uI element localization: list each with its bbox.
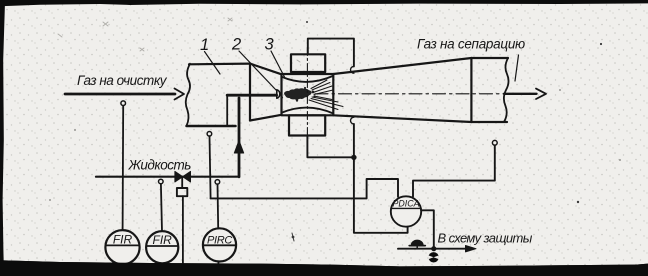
wire: PDICA output to protection line xyxy=(421,210,434,248)
wire: gas outlet arrow line xyxy=(504,93,537,95)
vessel 1: top edge xyxy=(189,62,250,65)
spray plume blob xyxy=(281,87,316,102)
valve on liquid line xyxy=(175,171,191,182)
spray fan lines upper xyxy=(311,80,333,95)
wire: gas inlet arrow line xyxy=(65,93,175,96)
svg-text:3: 3 xyxy=(265,36,275,54)
flange block below throat xyxy=(289,115,325,135)
diffuser top line xyxy=(333,58,471,74)
vessel 1: right edge xyxy=(249,64,251,121)
wire: impulse line tap to FIR 1 xyxy=(122,106,125,231)
venturi throat box xyxy=(282,74,334,115)
vessel 1: inlet chamber, wavy break left edge xyxy=(186,64,190,126)
vertical centerline (dash-dot) xyxy=(306,48,308,143)
valve actuator box xyxy=(177,188,187,196)
scan border: top black bar xyxy=(0,0,648,6)
nozzle 2 xyxy=(277,90,280,99)
node: junction dot on protection line xyxy=(431,246,436,251)
pipe: liquid supply line xyxy=(96,176,239,178)
svg-text:В схему защиты: В схему защиты xyxy=(438,231,533,246)
svg-text:Жидкость: Жидкость xyxy=(128,158,192,173)
protection arrowhead xyxy=(466,246,477,252)
wire: line from actuator down xyxy=(182,196,184,265)
outlet pipe flange line xyxy=(470,58,472,122)
leader line for label 3 xyxy=(271,51,285,77)
pipe: liquid feed horizontal run to nozzle xyxy=(227,94,276,97)
svg-text:Газ на сепарацию: Газ на сепарацию xyxy=(417,37,525,52)
spray fan lines lower xyxy=(309,96,343,110)
instrument PIRC xyxy=(203,228,236,261)
scan border: bottom black bar overlay xyxy=(0,260,648,276)
throat profile upper curve xyxy=(282,76,334,82)
flange block above throat xyxy=(291,54,325,72)
svg-text:PIRC: PIRC xyxy=(207,234,232,246)
converging cone top xyxy=(250,64,282,75)
svg-text:2: 2 xyxy=(231,36,241,54)
node: gas inlet tap (to FIR 1) xyxy=(121,101,126,106)
flow arrow on liquid riser xyxy=(234,141,243,154)
node: liquid line tap (to FIR 2) xyxy=(159,179,164,184)
node: junction dot xyxy=(351,155,356,160)
wire: impulse line vessel tap to PDICA top left xyxy=(211,179,398,198)
throat profile lower curve xyxy=(282,108,334,114)
wire: impulse line tap to FIR 2 xyxy=(161,184,162,232)
diffuser bottom line xyxy=(333,115,471,122)
pipe: liquid feed riser xyxy=(238,98,241,177)
shutoff ball symbol xyxy=(428,252,438,262)
wire: impulse line outlet tap to PDICA top right xyxy=(413,145,495,196)
wire: loop line continues to junction and PDICA bottom xyxy=(354,124,408,233)
svg-text:FIR: FIR xyxy=(153,233,173,247)
wire: protection signal arrow line xyxy=(398,248,466,250)
svg-text:PDICA: PDICA xyxy=(393,199,420,209)
leader line for label 2 xyxy=(239,51,277,91)
leader line from outlet label xyxy=(515,55,519,81)
instrument FIR 1 xyxy=(105,230,139,264)
scan border: bottom black bar xyxy=(0,260,648,276)
instrument PDICA xyxy=(391,196,421,226)
horn symbol xyxy=(411,240,423,245)
liquid channel wall xyxy=(226,95,228,126)
outlet pipe top edge xyxy=(471,57,508,59)
ink speck artifacts xyxy=(49,18,621,201)
wire: throat top tap loop to junction xyxy=(308,39,354,67)
svg-text:FIR: FIR xyxy=(113,233,133,247)
wire: impulse line tap to PIRC xyxy=(217,184,220,228)
node: liquid line tap (to PIRC) xyxy=(215,180,220,185)
leader line for label 1 xyxy=(205,52,221,75)
outlet pipe wavy break edge xyxy=(504,58,509,122)
valve actuator stem xyxy=(181,177,183,188)
horizontal centerline (dash-dot) xyxy=(315,93,504,95)
vessel 1: bottom edge xyxy=(187,125,236,128)
line hop over diffuser top xyxy=(351,66,354,73)
gas inlet open arrowhead xyxy=(175,89,185,100)
node: vessel 1 bottom tap (to PDICA left) xyxy=(207,132,212,137)
outlet pipe bottom edge xyxy=(471,121,507,123)
converging cone bottom xyxy=(250,115,282,121)
wire: impulse line from vessel tap down across liquid line xyxy=(210,136,211,198)
instrument FIR 2 xyxy=(146,231,178,263)
wire: PIRC bottom stub xyxy=(217,262,219,267)
scan border: left black bar xyxy=(0,0,5,276)
wire: throat bottom tap to junction xyxy=(307,136,353,158)
svg-text:Газ на очистку: Газ на очистку xyxy=(77,73,168,88)
line hop over diffuser bottom xyxy=(351,117,354,124)
node: outlet pressure tap xyxy=(492,140,497,145)
gas outlet open arrowhead xyxy=(536,89,546,99)
